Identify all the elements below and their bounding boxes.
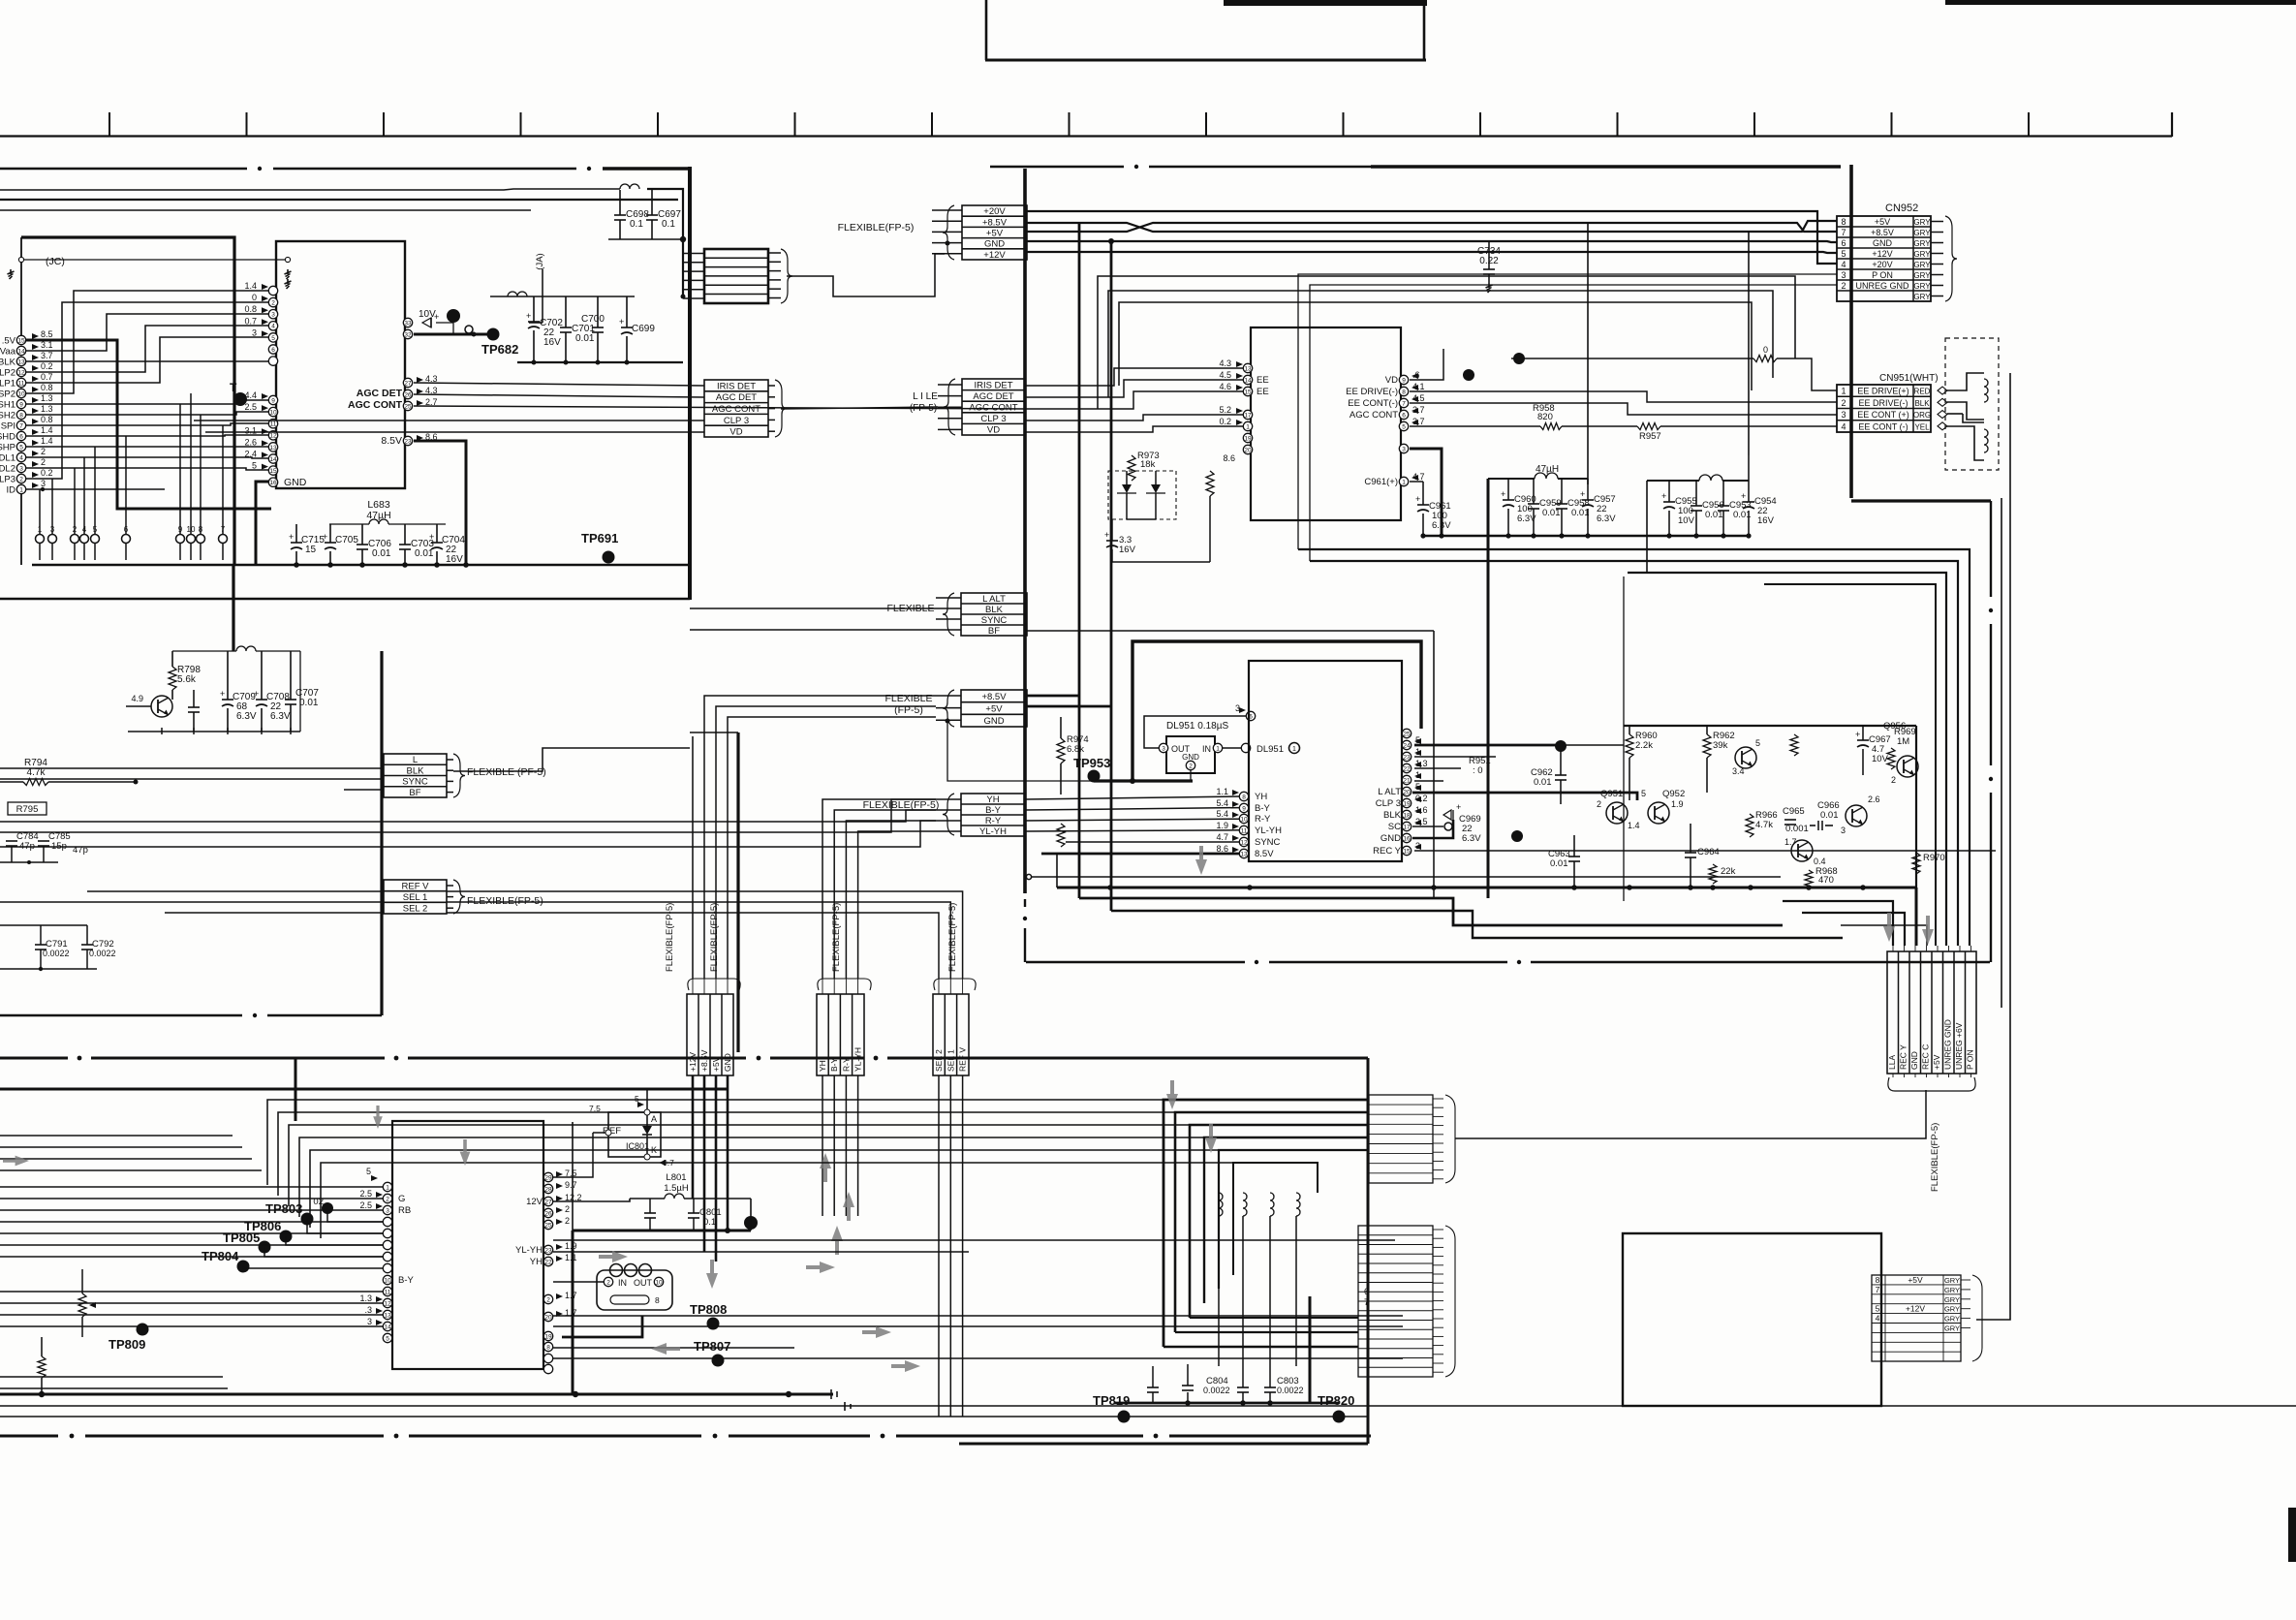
svg-text:820: 820 (1537, 412, 1553, 422)
svg-text:+: + (1415, 494, 1420, 504)
CCD pin 8 SH2 (16, 410, 25, 419)
svg-text:1.7: 1.7 (1784, 837, 1797, 847)
wire pin5 to IC (26, 446, 268, 448)
wires +12V stack stubs (692, 979, 694, 994)
svg-text:+12V: +12V (688, 1052, 698, 1072)
svg-text:1.4: 1.4 (41, 436, 53, 446)
ruler end stroke (2171, 112, 2173, 137)
L BLK SYNC BF connector box (384, 754, 447, 797)
svg-text:C964: C964 (1697, 847, 1720, 857)
svg-text:14: 14 (1244, 377, 1252, 384)
CCD pin 11 LP1 (16, 378, 25, 387)
main IC (timing generator) body (276, 241, 405, 488)
nested elbow wire bank (1628, 573, 1946, 946)
bottom middle block right border (1367, 1058, 1370, 1444)
svg-text:1: 1 (1292, 746, 1296, 753)
svg-text:(JA): (JA) (535, 253, 545, 269)
thin horizontal wire y650 (1027, 630, 1434, 632)
capacitor C792 0.0022 (81, 944, 93, 946)
EE IC left pins (1243, 363, 1252, 372)
stub pin 5 wire (94, 447, 96, 534)
capacitor C803 0.0022 (1264, 1386, 1276, 1388)
svg-text:GRY: GRY (1944, 1315, 1960, 1324)
svg-text:29: 29 (544, 1174, 552, 1181)
svg-text:1: 1 (386, 1184, 389, 1191)
svg-text:VD: VD (729, 427, 742, 438)
svg-text:2: 2 (606, 1279, 610, 1286)
svg-text:10: 10 (17, 390, 25, 397)
(JA) vertical wire (542, 269, 543, 323)
junction dot near TP682 (447, 309, 460, 323)
svg-text:13: 13 (17, 358, 25, 365)
svg-text:2.5: 2.5 (359, 1200, 372, 1210)
svg-text:0.7: 0.7 (244, 316, 257, 326)
svg-text:27: 27 (404, 380, 412, 387)
svg-text:+12V: +12V (1906, 1304, 1925, 1314)
svg-text:(JC): (JC) (46, 256, 65, 267)
resistor R970 (1912, 853, 1920, 874)
svg-text:K: K (651, 1145, 657, 1155)
svg-text:22: 22 (544, 1259, 552, 1265)
upper connector stack right mid (1369, 1095, 1433, 1183)
svg-text:P ON: P ON (1966, 1049, 1975, 1070)
svg-text:DL2: DL2 (0, 464, 16, 475)
svg-text:8: 8 (19, 412, 23, 419)
stub pin 8 wire (200, 415, 202, 534)
svg-text:BLK: BLK (1914, 399, 1930, 408)
L ALT connector box (961, 593, 1027, 636)
wire pin13 to IC (26, 360, 268, 362)
capacitor C963 0.01 (1568, 856, 1580, 857)
capacitor left of C801 (644, 1212, 656, 1214)
svg-text:1M: 1M (1897, 736, 1909, 747)
thick wire GND to LLA (1915, 888, 1918, 946)
long wire row E to bundle (310, 1150, 1219, 1228)
svg-text:CN951(WHT): CN951(WHT) (1879, 373, 1939, 384)
svg-text:+: + (526, 311, 531, 321)
svg-text:2: 2 (73, 525, 78, 534)
svg-text:YL-YH: YL-YH (1255, 826, 1282, 836)
bottom middle block bottom border (959, 1443, 1368, 1446)
vertical connector stack +12V group (687, 994, 733, 1075)
thick wires +8.5V +5V from box (1027, 695, 1079, 698)
svg-text:+: + (220, 689, 225, 699)
wire pin8 to IC (26, 412, 268, 415)
wire pin2 to IC (26, 302, 268, 479)
YH connector box (961, 794, 1025, 836)
svg-text:0: 0 (252, 293, 257, 302)
bottom block thick GND bus (0, 1088, 728, 1091)
wire pin15 REC Y right (1414, 850, 1996, 852)
svg-text:3.4: 3.4 (1732, 766, 1745, 776)
svg-text:2: 2 (271, 300, 275, 307)
svg-text:+5V: +5V (711, 1056, 721, 1072)
svg-text:4: 4 (1841, 260, 1846, 269)
EE cont motor coil (1947, 413, 1963, 415)
capacitor C785 15p (38, 840, 49, 842)
svg-text:GRY: GRY (1944, 1295, 1960, 1304)
svg-text:0.2: 0.2 (1219, 417, 1231, 426)
svg-text:3: 3 (50, 525, 55, 534)
wire pin7 to IC (26, 423, 268, 425)
wires into L box (0, 767, 384, 769)
wire pin21 right (1414, 780, 1443, 782)
svg-text:TP953: TP953 (1073, 756, 1110, 770)
svg-text:GRY: GRY (1913, 282, 1931, 291)
resistor R798 5.6k (169, 667, 176, 690)
svg-text:1: 1 (1216, 745, 1220, 752)
wire pin10 to IC (26, 291, 268, 393)
wire pin12 to IC (26, 326, 268, 372)
wire pin23 right thin (1414, 756, 1496, 758)
capacitor C791 0.0022 (35, 944, 47, 946)
wires LLA to flexible (1892, 1074, 1894, 1077)
svg-text:2: 2 (1841, 281, 1846, 291)
svg-text:9: 9 (1402, 377, 1406, 384)
svg-text:15: 15 (1244, 389, 1252, 395)
thick L wire under IC (562, 1316, 642, 1337)
resistor right of diode box (1206, 471, 1214, 496)
svg-text:GRY: GRY (1944, 1276, 1960, 1285)
svg-text:0.01: 0.01 (1571, 508, 1590, 518)
bottom thin line 1 (0, 1405, 2296, 1407)
nested elbow wire P ON (1298, 549, 1970, 946)
brace left of YH box (943, 794, 954, 835)
capacitor near Q (188, 706, 200, 708)
svg-text:3.7: 3.7 (41, 351, 53, 360)
svg-text:+8.5V: +8.5V (699, 1049, 709, 1072)
svg-text:GRY: GRY (1913, 271, 1931, 280)
svg-text:.3: .3 (364, 1305, 372, 1315)
bracket above SEL stack (934, 979, 976, 990)
potentiometer bottom left (78, 1293, 86, 1317)
CCD pin 13 BLK (16, 357, 25, 365)
svg-text:YL-YH: YL-YH (515, 1245, 543, 1256)
svg-text:+: + (254, 689, 259, 699)
svg-text:Q951: Q951 (1600, 789, 1623, 799)
svg-text:FLEXIBLE: FLEXIBLE (884, 693, 932, 704)
svg-text:4: 4 (82, 525, 87, 534)
svg-text:16: 16 (269, 480, 277, 486)
svg-text:11: 11 (1241, 827, 1248, 834)
junction dot GND drop (1108, 238, 1114, 244)
svg-text:R-Y: R-Y (1255, 814, 1271, 825)
svg-text:FLEXIBLE (PF-5): FLEXIBLE (PF-5) (467, 766, 546, 778)
svg-text:2.5: 2.5 (359, 1189, 372, 1199)
svg-text:0: 0 (1763, 345, 1768, 355)
nested bundle bottom links (1164, 1346, 1358, 1348)
svg-text:7.5: 7.5 (589, 1104, 601, 1113)
junction dot left (1511, 830, 1523, 842)
nested routing wire U1 (1098, 276, 1795, 409)
svg-text:25: 25 (404, 403, 412, 410)
svg-text:0.8: 0.8 (41, 383, 53, 392)
junction dot above C962 (1555, 740, 1567, 752)
svg-text:C965: C965 (1783, 806, 1805, 817)
long vertical wire to GRY connector (1976, 373, 2010, 1320)
right block inner thick box (1132, 641, 1421, 781)
CCD pin 14 Vaa (16, 346, 25, 355)
svg-text:39k: 39k (1713, 740, 1728, 751)
svg-text:11: 11 (270, 421, 277, 428)
svg-text:15: 15 (305, 545, 317, 555)
bottom block bottom dash-dot border (0, 1435, 58, 1438)
vertical connector stack YH group (817, 994, 864, 1075)
wire EE CONT(-) long (1410, 403, 1837, 415)
brace left of right IRIS box (944, 379, 955, 435)
IC2 left pins YH group (1239, 792, 1248, 800)
svg-text:T: T (230, 381, 237, 394)
wire pin20 long right (553, 1315, 1403, 1317)
IC2 right pins (1402, 729, 1411, 737)
transistor Q (left) (151, 696, 172, 717)
flex connector box (power out) (704, 249, 768, 303)
svg-text:47µH: 47µH (366, 510, 390, 521)
CCD pin 4 DL1 (16, 452, 25, 461)
svg-text:DL951 0.18µS: DL951 0.18µS (1166, 721, 1228, 732)
wire GND thick from IC pin16 (256, 482, 268, 565)
svg-text:5.4: 5.4 (1216, 809, 1228, 819)
svg-text:LLA: LLA (1887, 1055, 1897, 1070)
svg-text:5: 5 (19, 444, 23, 451)
svg-text:Q956: Q956 (1883, 721, 1906, 732)
svg-text:GND: GND (1182, 753, 1199, 762)
svg-text:: 0: : 0 (1473, 765, 1483, 776)
long wire row C to bundle (289, 1125, 1190, 1206)
svg-text:REC Y: REC Y (1899, 1044, 1908, 1070)
svg-text:13: 13 (269, 445, 277, 452)
svg-text:3: 3 (271, 312, 275, 319)
svg-text:0.8: 0.8 (244, 304, 257, 314)
test point TP819 (1118, 1411, 1131, 1423)
stub pin 4 wire (83, 457, 85, 534)
svg-text:0.4: 0.4 (1814, 857, 1826, 866)
svg-text:CN952: CN952 (1885, 202, 1918, 214)
nested elbow wire D (1764, 584, 1936, 946)
svg-text:0.7: 0.7 (41, 372, 53, 382)
svg-text:GRY: GRY (1913, 250, 1931, 259)
svg-text:EE DRIVE(+): EE DRIVE(+) (1857, 387, 1908, 396)
capacitor C697 0.1 (646, 214, 658, 216)
svg-text:16V: 16V (1757, 515, 1775, 526)
gray arrows right mid (1883, 913, 1895, 942)
svg-text:1.9: 1.9 (1671, 799, 1684, 809)
resistor R974 6.8k (1057, 738, 1065, 763)
capacitor C967 4.7 10V (1857, 739, 1869, 741)
svg-text:1.9: 1.9 (565, 1241, 577, 1251)
CCD pin 9 SH1 (16, 399, 25, 408)
svg-text:33: 33 (404, 320, 412, 327)
svg-text:20: 20 (544, 1314, 552, 1321)
ground symbol at IC top (287, 279, 289, 284)
thick +8.5V feed down (703, 1075, 706, 1252)
thick wire L down (1309, 1296, 1312, 1403)
svg-text:5: 5 (1402, 423, 1406, 430)
resistor 22k (1709, 864, 1717, 884)
wires TP pins fanning (327, 1208, 383, 1222)
wire junction to pin9 VD (1468, 375, 1470, 380)
nested elbow wire UNREG GND (1310, 561, 1958, 946)
svg-text:3: 3 (386, 1207, 389, 1214)
vertical connector stack SEL group (933, 994, 969, 1075)
svg-text:3: 3 (1841, 826, 1846, 835)
svg-text:SHP: SHP (0, 443, 16, 453)
wires YH box to IC2 (1025, 796, 1239, 799)
svg-text:20: 20 (1244, 447, 1252, 453)
wire pin bottom rows (553, 1347, 794, 1349)
bottom IC left pins (383, 1182, 391, 1191)
svg-text:17: 17 (1403, 824, 1411, 830)
right block bottom dash-dot border (1026, 961, 1245, 964)
thick +5V feed down (715, 1075, 718, 1262)
svg-text:SPI: SPI (1, 421, 16, 432)
left entry wires bottom block (0, 1135, 233, 1137)
svg-text:12: 12 (1240, 839, 1248, 846)
svg-text:YH: YH (818, 1060, 827, 1072)
svg-text:0.0022: 0.0022 (1203, 1386, 1230, 1395)
ruler tick marks (109, 112, 110, 136)
svg-text:FLEXIBLE(FP-5): FLEXIBLE(FP-5) (467, 895, 543, 907)
resistor R795 (8, 802, 47, 815)
svg-text:10V: 10V (1678, 515, 1695, 526)
svg-text:19: 19 (1244, 435, 1252, 442)
stub pin 6 wire (125, 436, 127, 534)
resistor at bottom left (38, 1356, 46, 1378)
svg-text:3: 3 (1162, 745, 1165, 752)
wire lower stack to right (1455, 1090, 1926, 1138)
bracket above +12V stack (688, 979, 740, 990)
svg-text:5: 5 (635, 1094, 639, 1104)
svg-text:+: + (1855, 730, 1860, 739)
thick wire bundle y940 (1111, 911, 1843, 938)
svg-text:EE CONT (-): EE CONT (-) (1858, 421, 1908, 431)
svg-text:GRY: GRY (1944, 1324, 1960, 1333)
svg-text:TP803: TP803 (265, 1201, 302, 1216)
svg-text:0.1: 0.1 (662, 219, 675, 230)
wire bank2 drop to elbow (1646, 481, 1648, 573)
svg-text:32: 32 (404, 331, 412, 338)
svg-text:CLP 3: CLP 3 (724, 416, 749, 426)
junction dots near EE IC (1463, 369, 1474, 381)
svg-text:5.2: 5.2 (1219, 405, 1231, 415)
svg-text:12: 12 (269, 433, 277, 440)
DL951 pins (1159, 743, 1167, 752)
wire SYNC to IC2 (1066, 841, 1239, 843)
svg-text:AGC CONT: AGC CONT (1350, 410, 1398, 421)
wire pin2 to delay in (553, 1281, 604, 1283)
thick wire pin20 L ALT right (1412, 793, 1637, 800)
svg-text:2.6: 2.6 (1868, 794, 1880, 804)
svg-text:7: 7 (1402, 400, 1406, 407)
svg-text:ORG: ORG (1913, 411, 1931, 420)
svg-text:0.0022: 0.0022 (43, 949, 70, 958)
bracket right of IRIS box (775, 380, 787, 437)
coils bottom mid (1219, 1193, 1223, 1216)
svg-text:GRY: GRY (1944, 1305, 1960, 1314)
top bus wire 3 (0, 209, 531, 211)
svg-text:C700: C700 (581, 314, 605, 325)
svg-text:19: 19 (1403, 800, 1411, 807)
svg-text:12: 12 (17, 369, 25, 376)
svg-text:13: 13 (1244, 365, 1252, 372)
svg-text:26: 26 (404, 391, 412, 398)
capacitor C707 0.01 (285, 699, 296, 701)
svg-text:EE CONT(-): EE CONT(-) (1348, 398, 1398, 409)
top bus wire 1 (0, 189, 620, 190)
GRY connector bottom right (1872, 1275, 1961, 1361)
svg-text:3: 3 (367, 1317, 372, 1326)
thick vertical from bank1 corner (1487, 479, 1490, 898)
svg-text:+: + (1456, 802, 1461, 812)
svg-text:CLP 3: CLP 3 (980, 414, 1006, 424)
wire SC with circle (1412, 826, 1443, 827)
cap bank bottom rail (517, 361, 683, 363)
svg-text:8: 8 (199, 525, 203, 534)
svg-text:8: 8 (1841, 217, 1846, 227)
svg-text:2: 2 (565, 1216, 570, 1226)
capacitor C703 0.01 (399, 544, 411, 545)
bus +5V wire with crossover (1027, 221, 1837, 232)
wire AGC CONT row (414, 406, 1025, 409)
main IC right pin 32 wire to TP682 (403, 329, 412, 338)
CCD pin 12 CLP2 (16, 367, 25, 376)
thick vertical wire x394 (380, 651, 383, 1015)
resistor R960 2.2k (1626, 734, 1633, 758)
svg-text:22: 22 (1403, 765, 1411, 772)
svg-text:8: 8 (1876, 1275, 1880, 1285)
svg-text:27: 27 (544, 1199, 552, 1205)
svg-text:FLEXIBLE(FP-5): FLEXIBLE(FP-5) (863, 799, 940, 811)
svg-text:18k: 18k (1140, 459, 1156, 470)
svg-text:0.1: 0.1 (630, 219, 643, 230)
wire VD to top (1410, 349, 1443, 380)
transistor circuit bottom bus (1057, 887, 1916, 889)
svg-text:1.4: 1.4 (41, 425, 53, 435)
svg-text:0.01: 0.01 (1534, 777, 1552, 788)
left edge arrow (3, 1156, 29, 1167)
svg-text:8: 8 (1242, 794, 1246, 800)
stub pin 7 wire (222, 425, 224, 534)
svg-text:4.7k: 4.7k (27, 767, 47, 778)
svg-text:6: 6 (124, 525, 129, 534)
svg-text:Q952: Q952 (1662, 789, 1685, 799)
svg-text:16V: 16V (446, 554, 463, 565)
thin vertical wire x1480 (1433, 631, 1435, 898)
wire TP953 stub (1093, 776, 1095, 781)
bracket right of GRY connector (1972, 1275, 1982, 1361)
brace left of power connector (943, 205, 954, 260)
svg-text:1.3: 1.3 (359, 1293, 372, 1303)
gray arrows bottom mid (460, 1139, 471, 1166)
capacitor C953 0.01 (1718, 505, 1729, 507)
CCD pin 2 CLP3 (16, 474, 25, 483)
right block right border upper (1849, 165, 1853, 498)
svg-text:GRY: GRY (1913, 261, 1931, 269)
junction dot inner box (1130, 778, 1135, 784)
svg-text:FLEXIBLE(FP-5): FLEXIBLE(FP-5) (947, 903, 958, 972)
wire 8.5V pin to bus (414, 441, 466, 565)
bracket right of upper stack (1445, 1095, 1455, 1183)
wires transistor bus to LLA (1783, 901, 1893, 946)
svg-text:17: 17 (1244, 412, 1252, 419)
right block top dash-dot border (990, 166, 1124, 169)
nested routing wire U2 (1108, 291, 1773, 397)
svg-text:1.1: 1.1 (1216, 787, 1228, 796)
svg-text:3: 3 (252, 327, 257, 337)
wire EE DRIVE(+) via 0 ohm (1511, 358, 1753, 359)
svg-text:B-Y: B-Y (398, 1275, 415, 1286)
svg-text:G: G (398, 1194, 405, 1204)
